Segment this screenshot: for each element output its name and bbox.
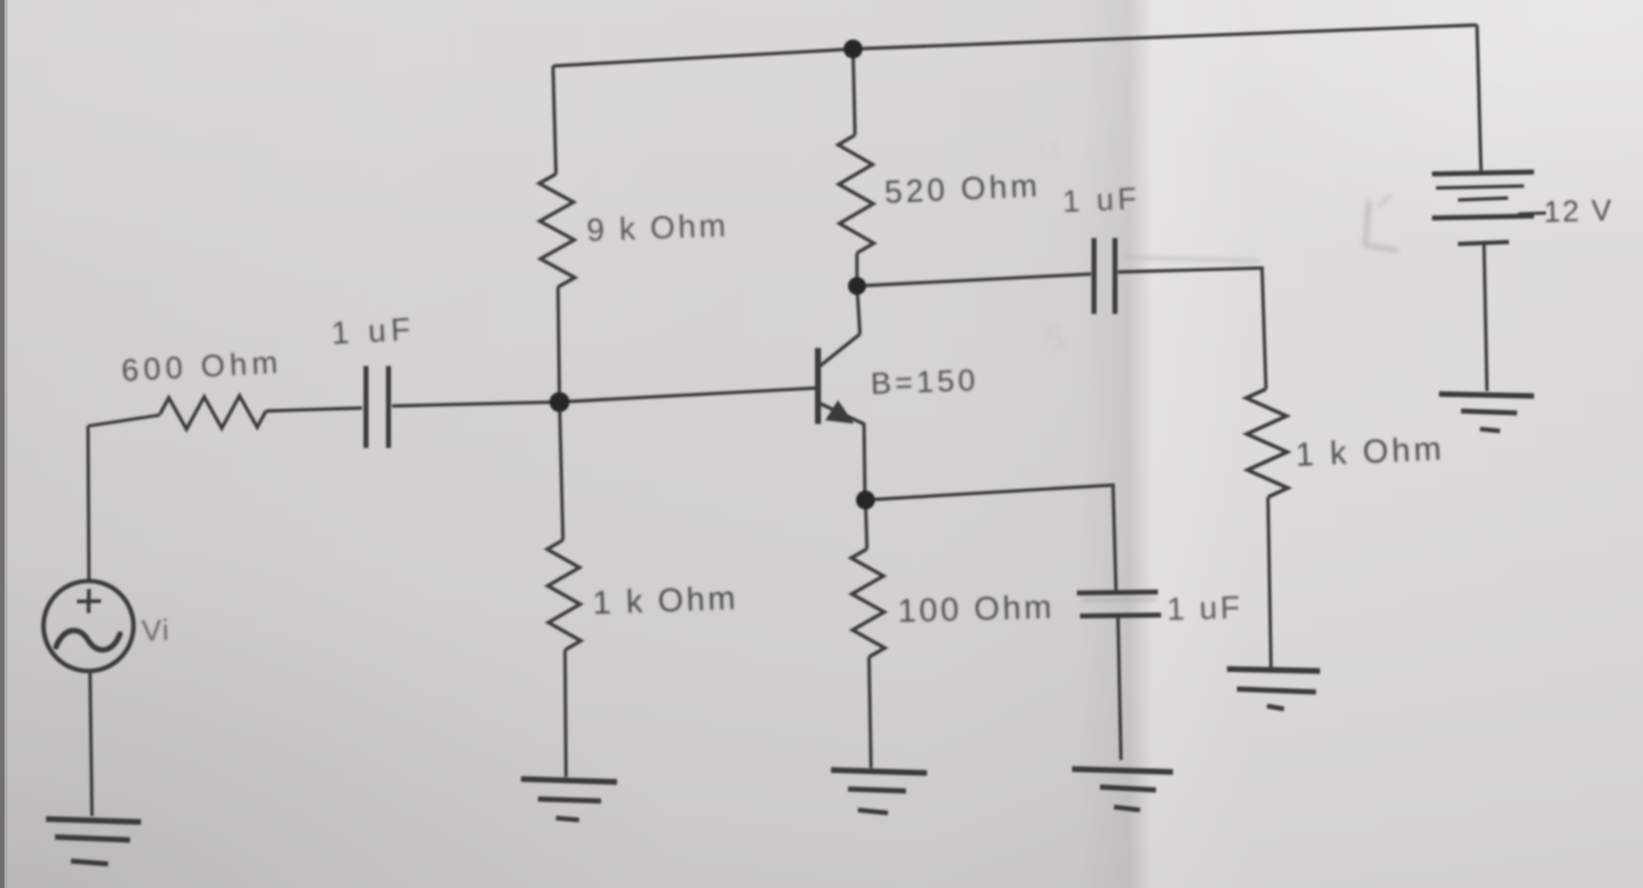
svg-text:1 uF: 1 uF	[330, 311, 416, 351]
svg-text:9 k Ohm: 9 k Ohm	[586, 207, 729, 248]
svg-text:1 uF: 1 uF	[1166, 589, 1243, 627]
svg-text:1 uF: 1 uF	[1062, 181, 1141, 219]
svg-text:12 V: 12 V	[1543, 194, 1614, 229]
svg-text:Vi: Vi	[141, 614, 170, 648]
svg-text:520 Ohm: 520 Ohm	[884, 167, 1042, 210]
svg-text:1 k Ohm: 1 k Ohm	[592, 579, 739, 621]
svg-text:100 Ohm: 100 Ohm	[897, 588, 1055, 629]
svg-text:B=150: B=150	[870, 362, 979, 401]
svg-text:(1: (1	[1039, 135, 1063, 164]
svg-text:1 k Ohm: 1 k Ohm	[1295, 430, 1446, 473]
